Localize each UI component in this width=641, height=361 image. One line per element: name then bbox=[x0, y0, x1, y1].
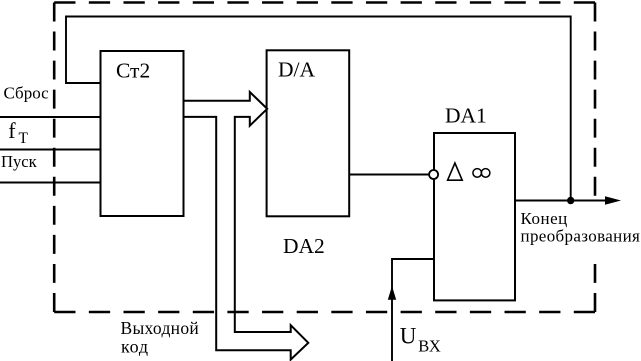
svg-text:Сброс: Сброс bbox=[4, 83, 50, 102]
svg-text:код: код bbox=[121, 337, 149, 357]
svg-text:f: f bbox=[8, 118, 16, 143]
svg-text:Конец: Конец bbox=[521, 209, 568, 228]
svg-text:ВХ: ВХ bbox=[418, 336, 441, 355]
svg-text:Ст2: Ст2 bbox=[116, 58, 150, 82]
svg-text:Т: Т bbox=[19, 130, 29, 147]
svg-text:DA2: DA2 bbox=[283, 234, 325, 258]
svg-text:DA1: DA1 bbox=[445, 104, 487, 128]
svg-text:U: U bbox=[400, 324, 417, 349]
svg-text:Пуск: Пуск bbox=[1, 152, 38, 171]
svg-text:Выходной: Выходной bbox=[121, 318, 200, 338]
svg-text:D/A: D/A bbox=[278, 58, 316, 82]
svg-text:преобразования: преобразования bbox=[521, 226, 641, 245]
